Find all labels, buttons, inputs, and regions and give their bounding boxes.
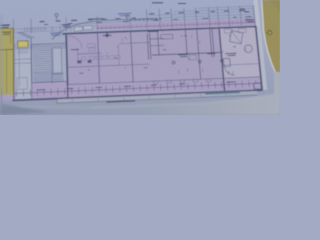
crease top middle: [150, 0, 152, 14]
corridor ticks: [16, 90, 18, 97]
interior walls horizontal: [152, 52, 221, 55]
left edge vignette: [0, 15, 3, 110]
door arc top-left of pink field: [68, 36, 82, 49]
left pink wall of main field: [65, 35, 68, 86]
small rect near 160: [161, 34, 173, 39]
corner text cluster right: [245, 19, 254, 21]
dark bottom-left corner: [0, 104, 50, 116]
corridor dimension line: [15, 83, 258, 93]
pink facade band: [96, 18, 256, 30]
right room furniture: tilted square: [230, 31, 243, 44]
paper background: [0, 0, 280, 115]
corridor door rects: [154, 81, 159, 84]
bottom-right dark square: [254, 83, 262, 89]
right margin shading: [274, 72, 280, 98]
blue note text: [118, 13, 132, 15]
main pink field: [67, 29, 224, 85]
mustard table corner top-right: [262, 0, 281, 74]
threshold marks: [77, 60, 81, 63]
corridor: [14, 81, 68, 99]
dimension lines top: [15, 20, 255, 29]
stair treads upper: [33, 49, 51, 52]
left top text: [1, 24, 10, 26]
label boxes: [87, 44, 95, 48]
yellow strip text: [2, 32, 11, 33]
door diamond symbol: [105, 33, 110, 38]
light lower-right paper: [235, 92, 280, 106]
columns: [172, 61, 175, 64]
fold streak right: [263, 90, 265, 108]
scattered small marks: [115, 58, 118, 59]
room text dashes: [103, 35, 112, 36]
strip between yellow and stairs: [15, 47, 32, 99]
corridor top edge line: [68, 77, 261, 85]
dense dash row: [130, 19, 133, 20]
lower edging band: [57, 91, 258, 103]
text above topmost line left: [88, 18, 104, 20]
right dim terminal line: [253, 5, 255, 25]
yellow label box: [18, 41, 28, 48]
minor facade ticks: [96, 26, 98, 30]
small horizontal walls right of pair: [150, 38, 164, 41]
paper edge highlight: [262, 0, 276, 73]
edging ticks: [71, 99, 73, 102]
left dim stub: [14, 31, 60, 33]
interior walls vertical: [98, 34, 100, 84]
right room small rect: [223, 58, 230, 66]
stair block outline: [31, 43, 67, 83]
right room text: [225, 53, 236, 54]
light margin strip along right edge: [254, 0, 268, 90]
grommet: [268, 31, 272, 35]
right room circle table: [244, 45, 252, 53]
right room window rects: [224, 29, 232, 33]
yellow strip: [0, 28, 14, 95]
bottom sheet edge shadow band: [0, 96, 280, 115]
counters row: [89, 56, 94, 59]
canopy boxes above wall: [74, 27, 82, 32]
stair landing: [53, 48, 62, 74]
wc fixture circle: [81, 57, 85, 61]
staircase block: [31, 43, 67, 83]
right large room: [219, 27, 262, 91]
right room door arc: [224, 65, 235, 76]
tiny dimension text dashes: [40, 21, 45, 22]
caption below: [106, 100, 135, 103]
major grid ticks: [13, 19, 15, 34]
long leader curve top-left: [52, 19, 158, 40]
mustard corner dark: [270, 0, 280, 12]
stair treads lower: [33, 73, 63, 74]
corridor text dashes: [37, 89, 45, 90]
room divider right: [218, 29, 225, 91]
small furniture mid room: [189, 55, 196, 60]
teal label: [205, 92, 240, 95]
left margin line: [1, 89, 3, 103]
top edge text: [152, 2, 163, 3]
main top wall: [62, 26, 256, 35]
right outer wall: [255, 26, 263, 91]
small text blocks left: [50, 32, 61, 34]
grid bubbles: [55, 14, 58, 17]
bottom wall: [12, 89, 263, 101]
step marks cluster: [18, 32, 25, 34]
